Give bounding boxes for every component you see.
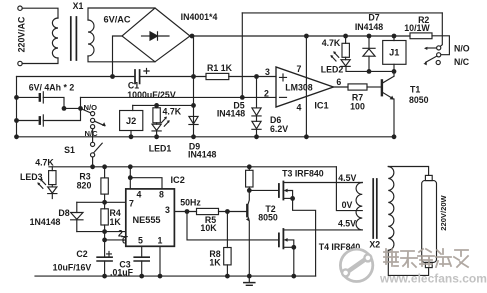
svg-text:C2: C2 <box>76 249 87 259</box>
watermark chinese text <box>384 249 468 267</box>
svg-text:0V: 0V <box>342 200 353 210</box>
wire 555 pin4 supply <box>129 167 131 189</box>
resistor R5 10K <box>197 208 219 214</box>
node D9 bottom <box>191 134 196 139</box>
capacitor C1 <box>135 70 140 83</box>
svg-text:T1: T1 <box>410 85 420 95</box>
node T4 source junction <box>291 245 296 250</box>
node T1 collector / J1 bottom <box>392 69 397 74</box>
wire J2 coil top line to DC node <box>133 104 194 106</box>
node T2 load resistor top <box>247 164 252 169</box>
capacitor C3 <box>134 257 149 261</box>
node C2 bottom <box>102 274 107 279</box>
svg-text:8050: 8050 <box>409 95 429 105</box>
svg-text:R1 1K: R1 1K <box>207 63 233 73</box>
node D5 top junction <box>254 74 259 79</box>
node R8 bottom <box>225 274 230 279</box>
svg-text:X2: X2 <box>369 240 380 250</box>
node LED1 bottom <box>154 134 159 139</box>
wire AC top to primary <box>22 8 58 18</box>
svg-text:4.5V: 4.5V <box>338 173 356 183</box>
resistor 4.7K (LED3) <box>51 167 53 171</box>
svg-text:1K: 1K <box>110 217 122 227</box>
node R8 tap <box>225 209 230 214</box>
node pin4 bottom <box>304 134 309 139</box>
wire N/C to S1 <box>92 129 94 143</box>
wire R2 to contacts <box>432 36 449 55</box>
node feedback junction pin2 <box>240 95 245 100</box>
resistor T2 collector load <box>248 167 250 171</box>
resistor R1 <box>206 73 229 79</box>
node LED1 resistor top <box>154 103 159 108</box>
transformer X2 core <box>373 179 377 238</box>
svg-text:1K: 1K <box>209 257 221 267</box>
op-amp U1 LM308 triangle <box>276 67 333 107</box>
wire S1 to +rail <box>92 157 94 167</box>
LED3 <box>48 187 57 193</box>
wire middle return rail <box>17 136 395 138</box>
svg-text:LED3: LED3 <box>20 172 43 182</box>
node R3/R4/pin7 junction <box>102 200 107 205</box>
wire T3 drain jog to coil (covered above) <box>359 183 362 230</box>
svg-text:4.7K: 4.7K <box>322 38 341 48</box>
resistor R2 <box>410 33 432 39</box>
wire +rail drop to X2 center tap <box>336 167 362 211</box>
ground symbol <box>248 276 250 282</box>
svg-text:220V/20W: 220V/20W <box>439 194 448 230</box>
LED1 <box>152 124 161 130</box>
wire timing column to C2 <box>104 232 106 258</box>
svg-text:LM308: LM308 <box>285 83 312 93</box>
mosfet T4 IRF840 <box>278 233 280 246</box>
svg-text:4.7K: 4.7K <box>35 158 54 168</box>
node battery2 negative <box>14 118 19 123</box>
svg-text:10uF/16V: 10uF/16V <box>53 262 92 272</box>
svg-text:5: 5 <box>138 236 143 246</box>
svg-text:NE555: NE555 <box>132 215 160 225</box>
wire pin7 line and D8 top <box>77 201 126 203</box>
node D9 top <box>191 103 196 108</box>
svg-text:6: 6 <box>336 77 341 87</box>
wire battery join <box>64 107 81 109</box>
svg-text:4.7K: 4.7K <box>163 106 182 116</box>
wire AC bottom to primary <box>22 58 58 64</box>
node bridge minus on rail <box>110 74 115 79</box>
relay J1 contact N/O <box>437 46 441 50</box>
wire secondary top to bridge <box>88 8 155 20</box>
battery B2 6V <box>17 120 39 122</box>
switch S1 bottom contact <box>91 153 95 157</box>
relay J1 contact stub N/O <box>426 47 437 49</box>
node 4.7K LED2 top <box>343 34 348 39</box>
node D6 bottom <box>254 134 259 139</box>
svg-text:4.5V: 4.5V <box>338 219 356 229</box>
relay coil J1 box <box>383 41 406 65</box>
svg-text:820: 820 <box>77 181 92 191</box>
lamp 220V/20W tube <box>425 175 432 180</box>
svg-text:IN4148: IN4148 <box>217 108 245 118</box>
node AC input top terminal <box>18 6 22 10</box>
svg-text:J2: J2 <box>126 116 136 126</box>
zener D6 <box>252 121 261 129</box>
relay J1 contact arm <box>426 56 437 62</box>
node C3 bottom <box>139 274 144 279</box>
svg-text:7: 7 <box>129 199 134 209</box>
wire bridge minus to filter rail <box>113 36 123 77</box>
wire T1 collector line <box>346 67 394 72</box>
node pin4/pin8 tie <box>128 175 133 180</box>
wire pin6 output <box>333 86 348 88</box>
wire low-voltage +rail after S1 <box>49 166 336 168</box>
wire T3 gate line <box>249 189 279 191</box>
resistor R7 <box>348 84 367 90</box>
node DC+ / R1 junction <box>191 74 196 79</box>
node pin6 tap <box>102 238 107 243</box>
wire T3 source to ground rail <box>293 198 316 276</box>
wire feedback top rail <box>242 12 442 14</box>
wire ground rail bottom <box>35 275 316 277</box>
wire J2 coil top riser <box>132 105 134 110</box>
wire J2 coil bottom <box>130 131 132 137</box>
switch S1 top contact <box>91 142 95 146</box>
svg-text:6V/AC: 6V/AC <box>103 15 130 25</box>
diode D8 <box>76 202 78 212</box>
node D7 anode junction <box>367 69 372 74</box>
svg-text:100: 100 <box>350 102 365 112</box>
relay J1 contact common <box>437 53 441 57</box>
wire pin3 output <box>174 211 196 213</box>
svg-text:4: 4 <box>137 190 142 200</box>
svg-text:IN4001*4: IN4001*4 <box>181 12 218 22</box>
node T3 source junction <box>290 196 295 201</box>
watermark logo <box>340 249 372 281</box>
svg-text:IC1: IC1 <box>314 100 328 110</box>
relay J2 contact arm <box>95 121 105 126</box>
svg-text:4: 4 <box>297 102 302 112</box>
node T1 emitter on rail <box>392 134 397 139</box>
relay J1 contact N/C <box>436 60 440 64</box>
svg-text:LED2: LED2 <box>321 65 344 75</box>
wire bridge plus drop column <box>193 36 195 137</box>
node 555 supply column top <box>128 164 133 169</box>
transformer X1 secondary winding <box>88 20 94 56</box>
resistor R4 1K <box>101 209 108 225</box>
wire J1 taps <box>393 36 395 71</box>
svg-text:8: 8 <box>159 190 164 200</box>
relay J2 contact N/C <box>91 125 95 129</box>
node AC input bottom terminal <box>18 61 22 65</box>
wire R1 to pin3 <box>229 76 276 78</box>
diode D9 <box>189 116 198 124</box>
svg-text:IN4148: IN4148 <box>188 150 216 160</box>
svg-text:10/1W: 10/1W <box>404 23 430 33</box>
svg-text:T3 IRF840: T3 IRF840 <box>282 168 324 178</box>
svg-text:3: 3 <box>265 67 270 77</box>
diode D5 <box>256 77 258 108</box>
wire R7 to T1 base <box>367 86 381 88</box>
node bridge plus <box>190 34 195 39</box>
wire 555 pin1 ground <box>159 246 161 276</box>
svg-text:7: 7 <box>297 64 302 74</box>
node battery join 1 <box>62 106 67 111</box>
wire filter rail mid segment <box>140 76 206 78</box>
svg-text:6: 6 <box>122 236 127 246</box>
svg-text:S1: S1 <box>64 145 75 155</box>
node S1 on +rail <box>90 164 95 169</box>
node pin7 top <box>304 34 309 39</box>
svg-text:J1: J1 <box>389 48 399 58</box>
svg-text:6V/ 4Ah * 2: 6V/ 4Ah * 2 <box>29 82 75 92</box>
node T4 source ground <box>291 274 296 279</box>
node J2 coil bottom <box>129 134 134 139</box>
node pin2/pin6 junction <box>102 229 107 234</box>
LED2 <box>341 60 350 66</box>
capacitor C2 <box>97 257 112 261</box>
transformer X1 primary winding <box>52 18 58 58</box>
svg-text:1000uF/25V: 1000uF/25V <box>127 90 176 100</box>
bridge diode symbol <box>142 35 151 37</box>
transformer X2 secondary winding <box>388 167 394 251</box>
svg-text:IC2: IC2 <box>171 175 185 185</box>
svg-text:X1: X1 <box>73 1 84 11</box>
wire secondary bottom to lamp <box>388 250 428 275</box>
wire pin6 line <box>105 239 126 241</box>
op-amp minus input mark <box>280 96 287 98</box>
node pin1 bottom <box>158 274 163 279</box>
svg-text:1N4148: 1N4148 <box>30 217 61 227</box>
svg-text:1: 1 <box>158 236 163 246</box>
resistor R8 1K <box>226 212 228 248</box>
transformer X1 core <box>71 17 77 60</box>
resistor 4.7K (LED2) <box>345 36 347 43</box>
wire T4 source to ground rail <box>293 247 295 276</box>
resistor 4.7K (LED1) <box>156 105 158 107</box>
relay J2 contact N/O <box>91 112 95 116</box>
relay J2 contact common <box>91 118 95 122</box>
wire negative bus left <box>16 77 18 137</box>
wire filter rail left segment <box>17 76 136 78</box>
svg-text:2: 2 <box>264 88 269 98</box>
wire DC+ rail y36 <box>190 35 410 37</box>
node bus corner on return rail <box>14 134 19 139</box>
node battery plus <box>78 106 83 111</box>
svg-text:www.elecfans.com: www.elecfans.com <box>379 272 487 286</box>
wire feedback drop to N/O <box>440 13 442 46</box>
svg-text:8050: 8050 <box>258 212 278 222</box>
node R3 top <box>102 164 107 169</box>
IC2 NE555 box <box>126 189 175 246</box>
op-amp U1 LM308 supply/ground column pins 7 and 4 <box>305 36 307 137</box>
svg-text:50Hz: 50Hz <box>180 198 201 208</box>
wire pin8 bracket <box>130 178 162 189</box>
node T2 collector / T3 gate <box>247 188 252 193</box>
svg-text:3: 3 <box>165 205 170 215</box>
svg-text:N/O: N/O <box>84 103 98 112</box>
transistor T2 8050 <box>248 190 250 205</box>
mosfet T3 IRF840 <box>278 184 280 197</box>
op-amp plus input mark <box>280 74 287 81</box>
svg-text:LED1: LED1 <box>149 143 172 153</box>
node J1 top <box>392 34 397 39</box>
wire battery sense line to pin2 <box>81 96 277 98</box>
svg-text:N/C: N/C <box>454 57 470 67</box>
transistor T1 8050 <box>381 80 383 95</box>
resistor R3 820 <box>104 167 106 178</box>
relay coil J2 box <box>120 111 143 131</box>
wire secondary top to lamp <box>388 167 428 176</box>
wire feedback riser to pin2 line <box>241 13 243 98</box>
relay J2 contact feed <box>81 108 91 113</box>
svg-text:N/O: N/O <box>454 44 470 54</box>
svg-text:6.2V: 6.2V <box>270 124 288 134</box>
battery B1 6V <box>17 96 39 98</box>
diode D7 <box>367 34 372 39</box>
node T2 emitter ground <box>247 274 252 279</box>
svg-text:220V/AC: 220V/AC <box>17 16 27 52</box>
node pin3 branch <box>185 209 190 214</box>
svg-text:IN4148: IN4148 <box>355 22 383 32</box>
transformer X2 primary winding <box>356 183 362 230</box>
svg-text:10K: 10K <box>200 223 217 233</box>
wire R5 to T2 base <box>219 211 247 213</box>
wire T4 gate branch <box>187 212 279 240</box>
node battery1 negative <box>14 95 19 100</box>
switch S1 blade <box>94 143 102 152</box>
bridge rectifier diamond <box>122 8 190 62</box>
wire secondary bottom to bridge <box>88 56 155 62</box>
capacitor C3 column pin5 <box>141 246 143 257</box>
